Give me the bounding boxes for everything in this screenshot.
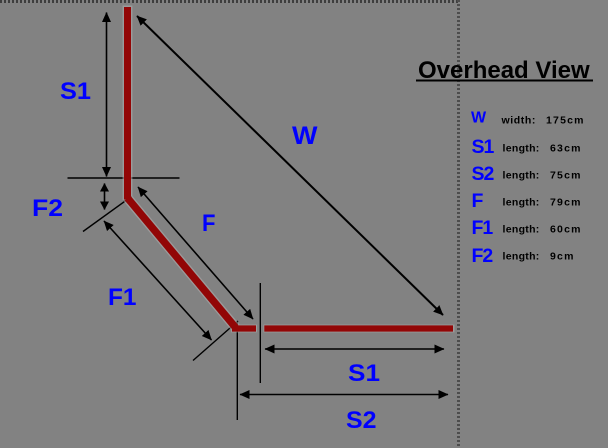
svg-text:F2: F2 <box>472 245 494 267</box>
dimension arrow F (diagonal) <box>138 187 253 319</box>
svg-text:W: W <box>471 110 487 127</box>
svg-text:S2: S2 <box>472 163 495 185</box>
svg-text:F1: F1 <box>108 284 137 311</box>
selection marquee top edge <box>0 0 458 3</box>
dimension arrow S2 (horizontal, bottom) <box>240 394 448 396</box>
svg-text:175cm: 175cm <box>546 115 585 127</box>
svg-text:S1: S1 <box>472 136 495 158</box>
svg-text:F: F <box>472 190 484 212</box>
svg-text:length:: length: <box>503 224 540 236</box>
svg-text:79cm: 79cm <box>550 197 582 209</box>
svg-text:W: W <box>292 122 318 150</box>
wall segment S2 (red horizontal) <box>264 325 453 331</box>
svg-text:9cm: 9cm <box>550 251 575 263</box>
witness line perpendicular at wall bend <box>83 197 132 232</box>
svg-text:63cm: 63cm <box>550 143 582 155</box>
wall stub left of gap (red horizontal) <box>232 325 256 331</box>
title underline <box>416 80 593 82</box>
svg-text:S2: S2 <box>346 407 377 434</box>
wall segment S1 (red vertical) <box>124 7 131 200</box>
svg-text:length:: length: <box>503 143 540 155</box>
dimension arrow F1 (diagonal) <box>104 221 212 340</box>
svg-text:length:: length: <box>503 197 540 209</box>
svg-text:S1: S1 <box>348 360 380 387</box>
light halo under red wall lines <box>128 6 455 329</box>
svg-text:60cm: 60cm <box>550 224 582 236</box>
svg-text:width:: width: <box>501 115 537 127</box>
dimension arrow S1 (horizontal, bottom) <box>265 348 444 350</box>
dimension arrow S1 (vertical, top-left) <box>106 13 108 177</box>
svg-text:F: F <box>202 210 216 237</box>
witness line perpendicular at bottom corner <box>193 321 238 361</box>
dimension arrow W (long diagonal) <box>137 16 443 315</box>
witness line vertical at corner (S2 datum) <box>236 321 238 420</box>
svg-text:S1: S1 <box>60 78 91 105</box>
svg-text:length:: length: <box>503 170 540 182</box>
selection marquee right edge / panel divider <box>457 0 460 448</box>
dimension arrow F2 (short vertical) <box>104 184 106 210</box>
svg-text:F1: F1 <box>472 217 494 239</box>
wall segment F (red diagonal) <box>128 198 236 328</box>
witness line vertical at wall gap (S1 datum) <box>259 283 261 383</box>
svg-text:F2: F2 <box>32 195 63 222</box>
witness line horizontal at top of F2 <box>68 177 180 179</box>
svg-text:75cm: 75cm <box>550 170 582 182</box>
svg-text:length:: length: <box>503 251 540 263</box>
